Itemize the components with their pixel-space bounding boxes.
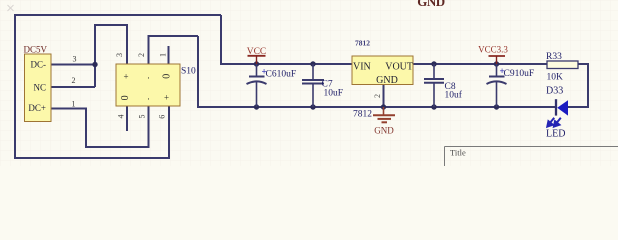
regulator 7812 [352, 56, 413, 86]
capacitor C7 [302, 64, 324, 107]
svg-text:+: + [164, 92, 169, 102]
svg-text:GND: GND [417, 0, 445, 9]
wire: top rail VCC (y=64) [221, 15, 352, 64]
svg-text:DC-: DC- [31, 60, 47, 70]
svg-text:DC5V: DC5V [24, 45, 48, 55]
svg-text:C910uF: C910uF [504, 69, 535, 79]
wire: connector pin1 DC+ to S10 pin5 [51, 106, 149, 147]
svg-text:2: 2 [137, 53, 146, 57]
svg-text:10K: 10K [547, 73, 564, 83]
power port VCC [247, 47, 267, 64]
wire: connector pin3 to S10 pin3 [51, 64, 95, 66]
wire: S10 pin1 stub [168, 46, 170, 64]
svg-text:VCC: VCC [247, 47, 267, 57]
svg-text:2: 2 [72, 76, 76, 85]
svg-text:C610uF: C610uF [266, 70, 297, 80]
svg-text:.: . [147, 71, 149, 81]
svg-text:VOUT: VOUT [385, 62, 413, 73]
svg-text:0: 0 [161, 74, 172, 79]
svg-text:VIN: VIN [353, 62, 371, 73]
svg-text:DC+: DC+ [28, 103, 46, 113]
wire: outer loop to S10 pin6 [15, 15, 221, 158]
svg-text:Title: Title [450, 148, 466, 158]
svg-text:7812: 7812 [353, 110, 372, 120]
wire: VOUT rail to R33 [413, 63, 547, 65]
svg-text:NC: NC [33, 83, 46, 93]
svg-text:3: 3 [115, 53, 124, 57]
ground symbol GND [373, 107, 395, 122]
svg-text:VCC3.3: VCC3.3 [478, 45, 508, 55]
svg-text:S10: S10 [181, 67, 196, 77]
transformer module S10 [116, 44, 180, 106]
svg-text:6: 6 [158, 115, 167, 119]
wire: S10 pin4 stub [126, 106, 128, 131]
svg-text:D33: D33 [546, 86, 563, 97]
svg-text:0: 0 [120, 95, 131, 100]
svg-text:+: + [123, 72, 128, 82]
wire: R33 to LED cathode [568, 64, 588, 107]
svg-text:10uf: 10uf [445, 90, 463, 101]
no-ERC marker [8, 5, 14, 11]
connector DC5V box [25, 54, 52, 122]
title block [445, 147, 618, 167]
svg-text:1: 1 [158, 53, 167, 57]
resistor R33 [547, 61, 578, 69]
svg-text:2: 2 [373, 94, 382, 98]
power port VCC3.3 [478, 45, 508, 65]
wire: 7812 GND pin [383, 85, 385, 108]
svg-text:10uF: 10uF [324, 89, 344, 99]
capacitor C8 [424, 64, 444, 107]
LED D33 [547, 99, 568, 126]
svg-text:R33: R33 [546, 52, 562, 62]
capacitor C9 (electrolytic) [487, 64, 507, 107]
svg-text:LED: LED [546, 129, 565, 140]
svg-text:GND: GND [376, 75, 398, 86]
svg-text:GND: GND [374, 126, 394, 136]
wire: connector pin2 NC [51, 86, 95, 88]
svg-text:7812: 7812 [355, 39, 370, 48]
svg-text:.: . [147, 92, 149, 102]
capacitor C6 (electrolytic) [247, 64, 267, 107]
wire: ground rail (y=107) [198, 36, 556, 107]
junction dots [92, 61, 499, 109]
svg-text:3: 3 [73, 55, 77, 64]
svg-text:4: 4 [116, 115, 125, 119]
svg-text:1: 1 [72, 100, 76, 109]
wire: S10 pin2 to ground rail [149, 36, 199, 64]
svg-text:5: 5 [138, 115, 147, 119]
